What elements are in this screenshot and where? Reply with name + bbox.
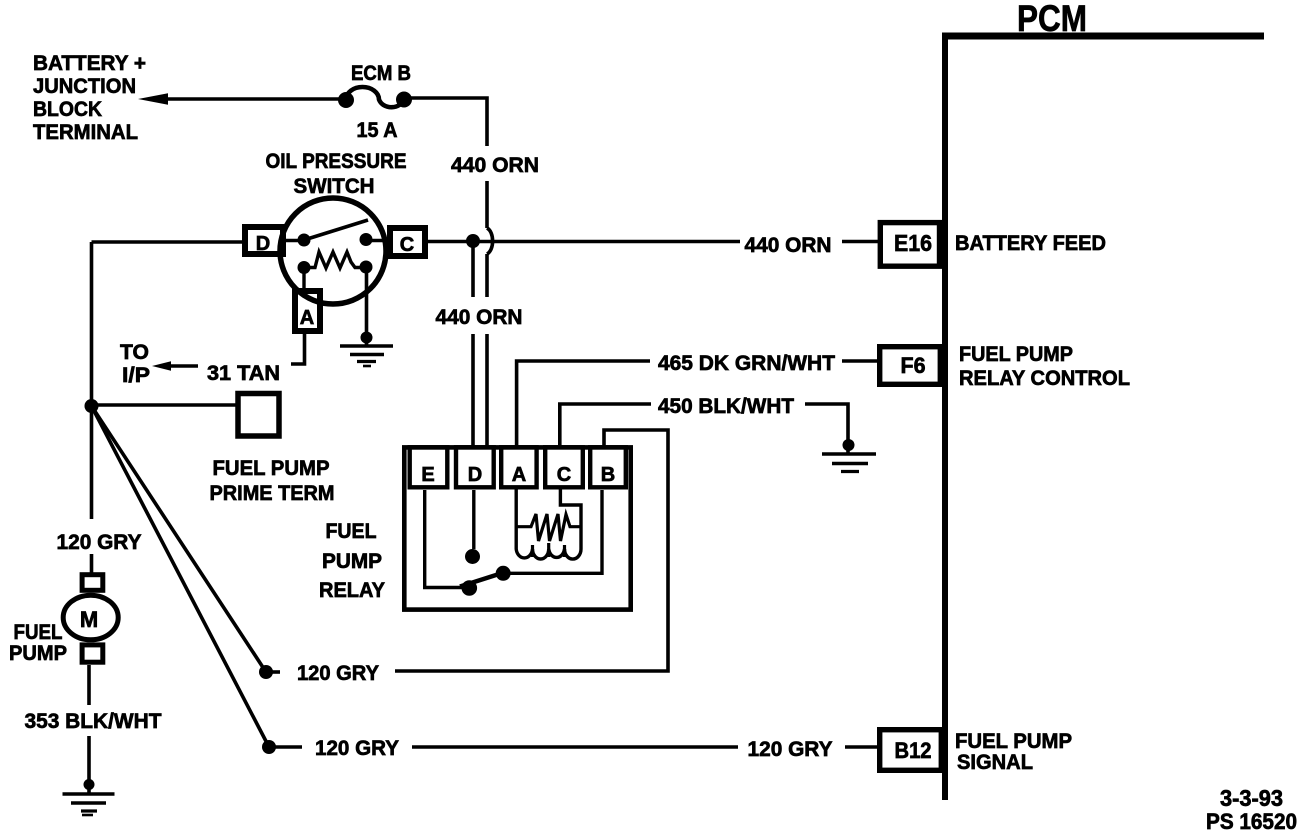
svg-text:FUEL PUMP: FUEL PUMP	[955, 730, 1072, 753]
fuse ECM B 15A	[338, 92, 354, 108]
relay internal: pin D to fixed contact	[472, 490, 475, 549]
relay internal: coil between A and C	[516, 489, 581, 559]
svg-text:440 ORN: 440 ORN	[745, 234, 832, 257]
svg-text:D: D	[468, 464, 482, 486]
node 1 dot and stub	[259, 665, 273, 679]
svg-text:FUEL PUMP: FUEL PUMP	[213, 457, 330, 480]
svg-text:FUEL: FUEL	[326, 520, 377, 543]
wire pin B to node 1 (120 GRY)	[395, 430, 668, 671]
wire junction to relay pin D	[471, 241, 475, 297]
svg-text:TERMINAL: TERMINAL	[33, 121, 138, 144]
connector terminal E16	[880, 223, 939, 267]
wire fuse to corner	[404, 98, 487, 146]
wire lower-left dot to terminal A	[302, 268, 305, 293]
wire junction down to fuel pump	[90, 406, 94, 519]
oil pressure switch body	[280, 198, 386, 304]
svg-text:PS 16520: PS 16520	[1206, 809, 1297, 834]
wire switch D to left bus	[92, 240, 246, 244]
svg-text:F6: F6	[901, 353, 926, 378]
svg-text:SIGNAL: SIGNAL	[957, 751, 1033, 774]
svg-text:BATTERY +: BATTERY +	[33, 52, 146, 75]
fuel pump relay outer box	[404, 447, 630, 609]
ground below oil pressure switch	[361, 332, 373, 344]
svg-text:OIL PRESSURE: OIL PRESSURE	[266, 150, 407, 173]
svg-text:440 ORN: 440 ORN	[436, 306, 523, 329]
svg-text:120 GRY: 120 GRY	[748, 738, 833, 761]
PCM connector top edge	[942, 33, 1264, 40]
diagonal wire junction to node 2	[92, 406, 270, 747]
svg-text:440 ORN: 440 ORN	[451, 154, 539, 177]
terminal D box	[245, 227, 283, 254]
switch contact dots	[298, 234, 311, 247]
terminal A box	[295, 291, 320, 331]
wire 440 ORN vertical (fuse side)	[485, 181, 489, 228]
ground below fuel pump	[84, 779, 95, 790]
switch blade	[304, 220, 368, 240]
connector terminal B12	[880, 730, 942, 771]
wire hop over battery feed wire	[487, 228, 493, 254]
wire pin A to F6 (465)	[517, 361, 650, 446]
wire pin C to ground (450)	[560, 404, 651, 446]
svg-text:A: A	[300, 307, 314, 329]
svg-text:BATTERY FEED: BATTERY FEED	[955, 232, 1106, 255]
svg-text:B: B	[601, 464, 615, 486]
svg-text:D: D	[256, 233, 270, 255]
wire stub right contact to C box	[366, 239, 391, 242]
diagonal wire junction to node 1	[92, 406, 267, 672]
fuel pump motor M	[82, 575, 103, 591]
svg-text:E16: E16	[894, 230, 932, 256]
node junction (left bus)	[85, 399, 99, 413]
relay internal: pin E to movable contact	[425, 490, 463, 588]
wire 440 ORN continues down to relay pin D	[485, 254, 489, 297]
node junction on battery feed wire	[466, 234, 480, 248]
svg-text:PUMP: PUMP	[322, 550, 382, 573]
svg-text:PUMP: PUMP	[9, 642, 67, 665]
wire battery feed to fuse (arrow)	[160, 97, 346, 101]
connector terminal F6	[880, 347, 941, 385]
svg-text:TO: TO	[120, 341, 149, 364]
svg-text:PRIME TERM: PRIME TERM	[210, 482, 335, 505]
wire stub D box to left contact	[284, 239, 304, 242]
svg-text:SWITCH: SWITCH	[294, 175, 375, 198]
wire junction to fuel pump prime terminal	[92, 403, 239, 407]
wire node 2 to B12	[412, 745, 738, 749]
svg-text:450 BLK/WHT: 450 BLK/WHT	[658, 395, 794, 418]
PCM connector left edge	[942, 33, 948, 800]
svg-text:31 TAN: 31 TAN	[207, 362, 280, 385]
wire fuel pump to ground	[87, 665, 91, 705]
ground for 450	[843, 439, 855, 451]
svg-text:C: C	[400, 234, 414, 256]
svg-text:RELAY CONTROL: RELAY CONTROL	[959, 367, 1130, 390]
wire switch C to PCM E16	[427, 240, 740, 244]
relay pin A box	[501, 447, 536, 487]
relay pin E box	[410, 447, 448, 487]
svg-text:ECM B: ECM B	[351, 62, 411, 85]
node 2 dot and stub	[262, 740, 276, 754]
svg-text:465 DK GRN/WHT: 465 DK GRN/WHT	[658, 352, 835, 375]
svg-text:I/P: I/P	[122, 364, 150, 387]
svg-text:JUNCTION: JUNCTION	[33, 75, 136, 98]
svg-text:353 BLK/WHT: 353 BLK/WHT	[25, 710, 162, 733]
relay pin D box	[456, 447, 494, 487]
wire terminal A down to 31 TAN	[291, 331, 305, 364]
relay pin C box	[545, 447, 583, 487]
svg-text:120 GRY: 120 GRY	[57, 531, 142, 554]
svg-text:FUEL: FUEL	[14, 621, 63, 644]
svg-text:120 GRY: 120 GRY	[297, 662, 379, 685]
arrow to I/P	[168, 364, 198, 368]
terminal C box	[390, 228, 425, 256]
svg-text:M: M	[80, 607, 98, 632]
svg-text:120 GRY: 120 GRY	[315, 737, 399, 760]
resistor inside switch	[298, 261, 311, 274]
fuel pump prime terminal box	[238, 394, 279, 437]
wire left bus vertical	[90, 242, 94, 406]
svg-text:B12: B12	[895, 738, 932, 763]
wire lower-right dot to ground	[365, 267, 369, 345]
svg-text:A: A	[512, 464, 526, 486]
svg-text:FUEL PUMP: FUEL PUMP	[959, 343, 1073, 366]
svg-text:C: C	[557, 464, 571, 486]
svg-text:3-3-93: 3-3-93	[1220, 785, 1283, 811]
relay internal: blade to pin B	[503, 490, 602, 573]
svg-text:BLOCK: BLOCK	[33, 98, 102, 121]
svg-text:E: E	[421, 464, 434, 486]
svg-text:RELAY: RELAY	[319, 579, 385, 602]
relay pin B box	[590, 447, 626, 487]
relay internal: switch blade	[460, 572, 507, 587]
svg-text:15 A: 15 A	[357, 119, 398, 142]
